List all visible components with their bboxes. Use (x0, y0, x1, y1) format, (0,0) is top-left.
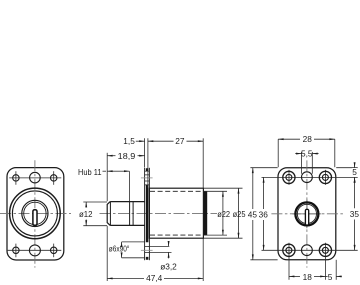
lock body outline (149, 188, 203, 238)
flange top hole row tick (141, 177, 153, 179)
svg-text:18: 18 (303, 272, 313, 282)
dimension 35 (350, 177, 360, 250)
dimension d3,2 (149, 241, 178, 271)
dimension 5 bottom (326, 260, 342, 282)
dimension 47,4 (107, 226, 203, 283)
flange bottom hole lines (145, 246, 150, 252)
svg-text:ø3,2: ø3,2 (160, 261, 177, 271)
screw hole top-left crosshair (15, 171, 17, 185)
screw hole bottom-left (13, 247, 19, 253)
top hole row line back view (262, 176, 358, 178)
latch nose groove line 2 (132, 202, 134, 226)
keyway slot back view (305, 209, 308, 225)
countersunk hole top-left (283, 171, 295, 183)
svg-text:36: 36 (259, 210, 269, 220)
flange front face line (144, 168, 146, 260)
latch nose outline d12 (107, 202, 145, 226)
cylinder body circle d25 (10, 188, 61, 239)
svg-text:18,9: 18,9 (118, 151, 136, 161)
flange bottom hole row tick (141, 249, 153, 251)
vertical centerline front view (34, 160, 36, 267)
keyway slot front view (33, 210, 37, 226)
center crosshair back view (293, 200, 322, 229)
latch nose chamfer line (109, 202, 111, 226)
countersunk hole bottom-left (283, 244, 295, 256)
dimension d12 (79, 202, 107, 226)
cylinder body circle d22 (12, 191, 57, 236)
cylinder inner circle back view (297, 204, 316, 223)
flange back face line (148, 168, 150, 260)
lock body hidden line d22 top (150, 190, 201, 192)
bottom middle hole back view (302, 245, 313, 256)
svg-text:27: 27 (175, 136, 185, 146)
dimension 28 (278, 134, 335, 167)
dimension d6x90 (109, 242, 145, 258)
screw hole top-right crosshair (53, 171, 55, 185)
countersunk hole bottom-left crosshair (288, 243, 290, 280)
svg-text:28: 28 (303, 134, 313, 144)
svg-text:45: 45 (248, 210, 258, 220)
lock body end band (204, 191, 207, 235)
svg-text:35: 35 (350, 209, 360, 219)
dimension 27 (148, 136, 203, 188)
flange top hole lines (145, 171, 150, 185)
back plate outline (278, 168, 336, 260)
bottom hole row line back view (262, 249, 358, 251)
top middle hole back view (302, 172, 313, 183)
svg-text:47,4: 47,4 (146, 273, 163, 283)
svg-text:Hub 11: Hub 11 (78, 167, 102, 177)
screw hole top-left (13, 175, 19, 181)
dimension d22 (204, 191, 231, 235)
svg-text:5: 5 (352, 167, 357, 177)
dimension d25 (204, 188, 246, 238)
plug circle inner (24, 202, 46, 224)
lock body hidden line d22 bottom (150, 234, 201, 236)
screw hole bottom-right (51, 247, 57, 253)
flange section fill (146, 168, 149, 260)
horizontal centerline side view (100, 212, 218, 214)
dimension 5 top right (336, 163, 358, 182)
plug circle outer (22, 200, 48, 226)
countersunk hole top-right crosshair (325, 170, 327, 185)
dimension 18,9 (107, 151, 144, 201)
top hole row centerline front view (9, 177, 61, 179)
countersunk hole top-left crosshair (288, 170, 290, 185)
horizontal centerline front view (0, 212, 71, 214)
screw hole bottom-left crosshair (15, 244, 17, 258)
dimension 45 (248, 168, 278, 260)
svg-text:ø12: ø12 (79, 209, 93, 219)
screw hole top-right (51, 175, 57, 181)
dimension 18 (289, 272, 326, 282)
svg-text:ø22: ø22 (217, 209, 230, 219)
svg-text:ø25: ø25 (233, 209, 246, 219)
bottom hole row centerline front view (8, 249, 62, 251)
countersunk hole bottom-right crosshair (325, 243, 327, 280)
horizontal centerline back view (271, 213, 344, 215)
latch nose groove line 1 (129, 202, 131, 226)
svg-text:5,5: 5,5 (301, 148, 313, 158)
dimension 36 (259, 177, 269, 250)
cylinder cap ring back view (295, 202, 318, 225)
screw hole bottom-right crosshair (53, 244, 55, 258)
countersunk hole bottom-right (319, 244, 331, 256)
vertical centerline back view (306, 160, 308, 267)
svg-text:1,5: 1,5 (123, 136, 135, 146)
countersunk hole top-right (319, 171, 331, 183)
svg-text:5: 5 (328, 272, 333, 282)
bottom middle hole (29, 245, 40, 256)
dimension Hub 11 (78, 167, 129, 201)
dimension 1,5 (123, 136, 148, 188)
svg-text:ø6x90°: ø6x90° (109, 243, 130, 253)
top middle hole (30, 172, 41, 183)
dimension 5,5 (295, 148, 318, 173)
front plate outline (7, 168, 64, 260)
